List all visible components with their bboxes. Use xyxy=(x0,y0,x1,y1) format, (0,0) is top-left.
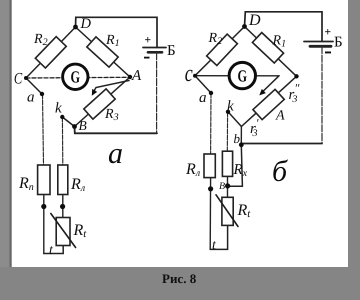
svg-text:Б: Б xyxy=(167,43,176,59)
svg-text:В: В xyxy=(79,118,87,133)
svg-text:а: а xyxy=(108,137,123,170)
svg-text:G: G xyxy=(238,66,248,85)
svg-text:+: + xyxy=(325,27,332,39)
svg-text:k: k xyxy=(55,101,62,117)
svg-text:a: a xyxy=(199,90,207,106)
svg-text:C: C xyxy=(14,71,23,88)
svg-text:Рис. 8: Рис. 8 xyxy=(162,271,197,286)
svg-text:G: G xyxy=(71,68,81,87)
svg-text:Б: Б xyxy=(334,35,343,51)
svg-text:В: В xyxy=(219,181,225,192)
svg-text:b: b xyxy=(234,131,241,146)
svg-text:a: a xyxy=(27,90,35,106)
svg-text:k: k xyxy=(227,99,234,115)
svg-text:D: D xyxy=(248,12,261,29)
svg-text:A: A xyxy=(275,109,285,124)
svg-text:+: + xyxy=(145,35,152,47)
svg-text:c: c xyxy=(185,61,193,87)
svg-text:б: б xyxy=(272,155,288,188)
svg-text:D: D xyxy=(80,16,92,32)
svg-text:A: A xyxy=(131,68,142,84)
